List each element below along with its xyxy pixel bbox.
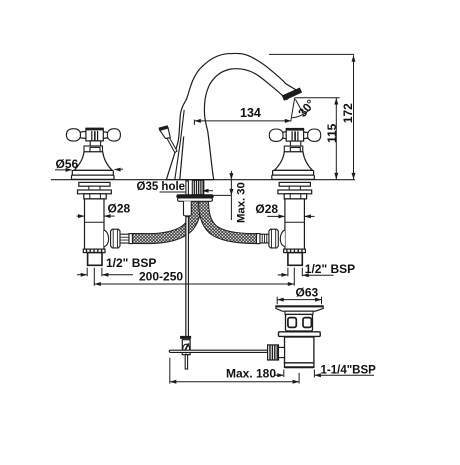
waste bottom band: [285, 363, 314, 368]
dim 200-250: [94, 268, 294, 286]
lift rod knob: [160, 128, 171, 139]
ferrule: [260, 234, 269, 243]
overflow hole right: [303, 318, 311, 328]
right bell: [274, 152, 312, 171]
left bulb: [269, 129, 283, 141]
30 degree annotation: [291, 97, 318, 121]
left valve below deck: [78, 182, 133, 265]
ferrule collar: [257, 234, 260, 244]
fitting hex nut: [269, 229, 278, 248]
left neck: [79, 131, 86, 138]
svg-text:Max. 30: Max. 30: [235, 182, 247, 223]
ball rod stub: [279, 347, 285, 357]
left skirt step1: [72, 170, 113, 175]
dim Ø56: [55, 157, 123, 172]
fitting hex nut: [111, 229, 120, 248]
dim 1/2 BSP left: [77, 256, 156, 277]
label Ø35 hole: [137, 181, 214, 193]
hub: [86, 128, 103, 141]
clevis flange tick: [181, 336, 191, 338]
right bulb: [308, 129, 321, 141]
waste neck: [285, 311, 313, 314]
svg-text:1/2" BSP: 1/2" BSP: [305, 262, 355, 276]
stem: [90, 141, 100, 146]
ball rod ribbed block: [268, 345, 279, 360]
hub: [286, 129, 303, 142]
svg-text:Ø63: Ø63: [296, 286, 319, 300]
left neck: [282, 132, 286, 139]
left bulb: [66, 129, 80, 141]
inlet 1/2 BSP: [288, 253, 302, 266]
right skirt step1: [273, 170, 314, 175]
pop-up rod lower: [186, 217, 189, 337]
svg-text:134: 134: [240, 106, 261, 120]
waste mid ring: [279, 332, 321, 337]
svg-text:Ø35 hole: Ø35 hole: [137, 181, 186, 193]
dim 1/2 BSP right: [278, 262, 355, 278]
dim 172: [341, 55, 356, 179]
tube: [285, 199, 305, 249]
side port bump: [280, 230, 285, 246]
waste upper body: [286, 314, 313, 331]
spout outlet black tip: [282, 88, 301, 100]
right skirt step2: [272, 175, 315, 179]
neck: [289, 186, 300, 190]
left handle cross: [66, 128, 120, 152]
hex nut: [284, 194, 306, 199]
svg-text:1-1/4"BSP: 1-1/4"BSP: [321, 365, 377, 377]
right hose: [204, 200, 259, 239]
clevis block: [182, 340, 190, 355]
rod tip below clevis: [185, 355, 187, 369]
dim Max. 180: [170, 358, 299, 384]
side port bump: [104, 230, 109, 246]
dim Ø63: [277, 286, 321, 305]
right neck: [304, 132, 309, 139]
right bulb: [107, 129, 120, 141]
top extension line: [269, 53, 354, 55]
dim Ø28 right: [255, 202, 314, 218]
mounting flange dark bar: [178, 198, 213, 201]
plate1: [279, 182, 310, 186]
deck line: [51, 179, 355, 181]
hex nut: [84, 194, 106, 199]
right valve below deck: [257, 182, 312, 265]
svg-text:200-250: 200-250: [139, 270, 183, 284]
bottom washer ribbed: [284, 249, 306, 253]
spout inner line C: [180, 137, 184, 180]
left bell: [74, 152, 112, 171]
dim 134: [194, 106, 291, 125]
bottom washer ribbed: [83, 249, 105, 253]
right neck: [103, 132, 108, 139]
rod guide cylinder: [184, 201, 192, 216]
dim Ø28 left: [77, 202, 131, 218]
spout body: [166, 53, 297, 179]
waste lower body: [285, 337, 314, 363]
lift rod stem: [167, 138, 177, 153]
overflow hole left: [288, 318, 296, 328]
plate2: [78, 190, 112, 194]
inlet 1/2 BSP: [88, 253, 102, 266]
plate1: [79, 182, 110, 186]
svg-text:Ø28: Ø28: [255, 202, 278, 216]
spout inner line B: [175, 110, 184, 180]
svg-text:1/2" BSP: 1/2" BSP: [106, 256, 156, 270]
dim Max. 30: [214, 171, 248, 223]
right handle cross: [269, 129, 320, 152]
pop-up rod vertical: [186, 181, 189, 337]
collar: [84, 146, 103, 152]
dim 115: [325, 98, 339, 179]
ferrule: [120, 234, 129, 243]
plate2: [278, 190, 312, 194]
collar: [284, 146, 303, 152]
tube: [85, 199, 105, 249]
svg-text:115: 115: [325, 123, 339, 143]
neck: [89, 186, 100, 190]
dim 1-1/4 BSP: [275, 365, 376, 378]
left hose: [132, 200, 195, 239]
svg-text:Max. 180: Max. 180: [226, 367, 276, 381]
svg-text:172: 172: [341, 103, 355, 123]
center threaded stem below deck: [192, 180, 204, 194]
waste flange top: [276, 306, 323, 311]
left skirt step2: [72, 175, 115, 179]
outlet horizontal extension: [295, 97, 340, 99]
horizontal rod: [169, 350, 267, 352]
svg-text:Ø28: Ø28: [108, 202, 131, 216]
ferrule collar: [129, 234, 132, 244]
stem: [290, 141, 300, 146]
